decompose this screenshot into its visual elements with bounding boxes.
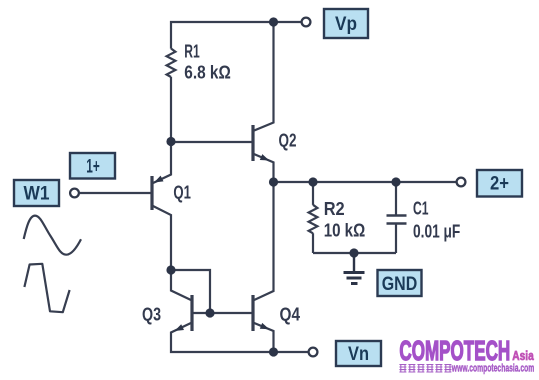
transistor Q1 base bar <box>150 176 153 210</box>
svg-text:Q4: Q4 <box>280 304 301 325</box>
terminal circle Vp <box>302 18 311 27</box>
arrow Q1 emitter <box>154 176 164 183</box>
svg-text:Q1: Q1 <box>173 182 191 203</box>
transistor Q4 base bar <box>251 295 254 331</box>
logo tagline CJK blocks <box>399 365 451 373</box>
wire Q4 emitter to bottom rail <box>253 323 274 353</box>
svg-text:6.8 kΩ: 6.8 kΩ <box>184 61 231 82</box>
node dot ground <box>349 248 358 257</box>
resistor R2 <box>309 205 318 234</box>
wire R2/C1 common to ground <box>313 252 396 254</box>
label box Vn <box>336 341 381 366</box>
svg-text:C1: C1 <box>413 198 429 219</box>
transistor Q3 base bar <box>190 295 193 331</box>
wire output node to 2+ terminal <box>274 181 457 183</box>
svg-text:GND: GND <box>382 274 418 295</box>
wire Q3 emitter to bottom rail <box>171 323 308 353</box>
svg-text:1+: 1+ <box>86 156 100 177</box>
wire top rail Vp <box>171 22 301 49</box>
svg-text:Q3: Q3 <box>142 304 161 325</box>
wire C1 bottom <box>395 224 397 253</box>
terminal circle W1 <box>70 189 79 198</box>
label box 1+ <box>70 153 115 179</box>
wire Q4 collector to output node <box>253 182 274 301</box>
label box 2+ <box>477 170 522 197</box>
transistor Q2 base bar <box>251 125 254 161</box>
svg-text:W1: W1 <box>24 184 50 205</box>
svg-text:0.01 μF: 0.01 μF <box>413 220 460 241</box>
terminal circle 2+ <box>457 178 466 187</box>
triangle wave symbol <box>24 264 69 312</box>
wire Q2 collector to top rail <box>253 22 274 131</box>
svg-text:R1: R1 <box>184 41 200 62</box>
wire R2 top <box>312 182 314 205</box>
svg-text:R2: R2 <box>324 198 345 219</box>
node dot output <box>269 177 278 186</box>
resistor R1 <box>167 49 176 78</box>
node dot mirror base <box>205 308 214 317</box>
sine wave symbol <box>24 216 81 255</box>
node dot bottom rail <box>269 347 278 356</box>
svg-text:2+: 2+ <box>490 174 509 195</box>
capacitor C1 plates <box>387 214 407 217</box>
wire Q3 base to Q4 base <box>192 312 253 314</box>
wire Q2 emitter to output node <box>253 154 274 182</box>
node dot C1 top <box>391 177 400 186</box>
node dot top rail <box>269 17 278 26</box>
arrow Q4 emitter <box>260 323 270 329</box>
svg-text:10 kΩ: 10 kΩ <box>324 219 366 240</box>
node A dot <box>166 137 175 146</box>
svg-text:Vp: Vp <box>335 14 357 35</box>
arrow Q3 emitter <box>175 324 185 331</box>
wire C1 top <box>395 182 397 215</box>
ground <box>344 253 365 284</box>
wire Q3 collector <box>171 270 192 301</box>
svg-text:Vn: Vn <box>348 344 369 365</box>
wire W1 to Q1 base <box>80 192 151 194</box>
label box W1 <box>14 180 59 206</box>
wire R1 bottom to node A <box>170 77 172 142</box>
arrow Q2 emitter <box>260 154 270 160</box>
svg-text:www.compotechasia.com: www.compotechasia.com <box>451 362 534 374</box>
wire Q1 emitter from node A <box>152 142 171 184</box>
logo COMPOTECH <box>399 335 534 374</box>
terminal circle Vn <box>309 348 318 357</box>
wire R2 bottom <box>312 233 314 253</box>
label box Vp <box>324 9 368 38</box>
wire Q1 collector down <box>152 206 171 271</box>
wire node B to mirror base <box>171 270 210 313</box>
label box GND <box>378 270 422 296</box>
svg-text:Q2: Q2 <box>279 129 297 150</box>
wire node A to Q2 base <box>171 141 253 143</box>
node B dot <box>166 265 175 274</box>
node dot R2 top <box>308 177 317 186</box>
